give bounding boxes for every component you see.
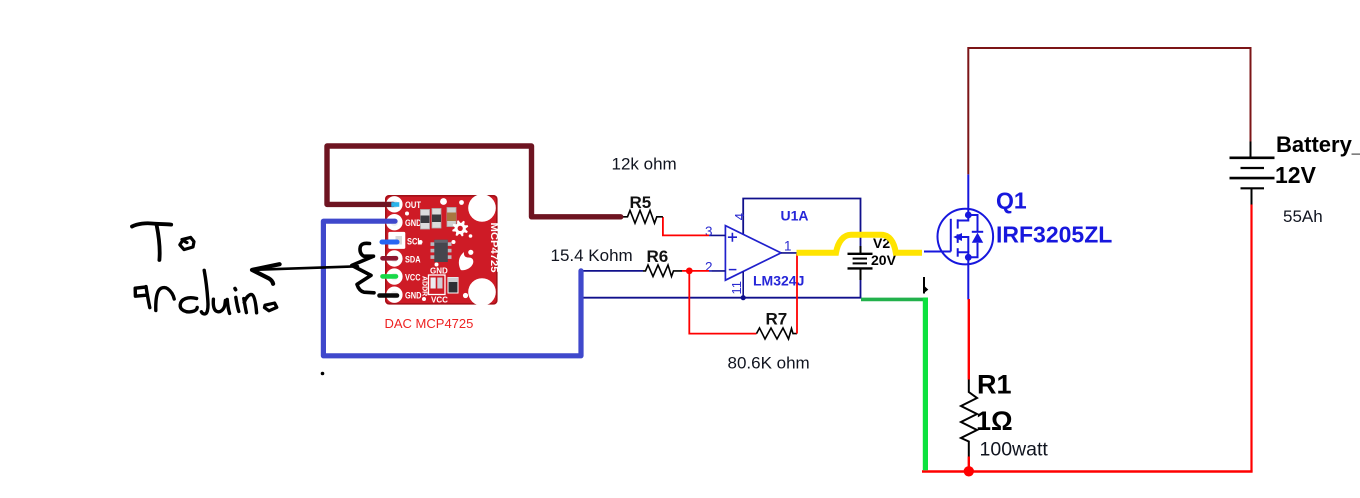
Q1 channel segment bottom (957, 248, 959, 257)
svg-text:SDA: SDA (405, 255, 421, 266)
wire top rail dark red (968, 48, 1250, 174)
board IC MCP4725 chip (431, 242, 436, 246)
svg-text:GND: GND (405, 218, 422, 229)
op-amp U1A triangle (725, 226, 781, 281)
Q1 drain inner connection (958, 209, 969, 221)
DAC board group (385, 194, 500, 306)
letter u (213, 299, 225, 312)
op-amp minus sign (729, 269, 737, 271)
svg-text:R6: R6 (647, 247, 669, 266)
Q1 gate bar (950, 219, 952, 252)
battery plate short (1241, 167, 1265, 169)
battery plate short bottom (1241, 187, 1265, 189)
svg-text:ADDR: ADDR (421, 276, 428, 296)
Q1 body diode connection bottom (968, 243, 977, 257)
op-amp pin2 stub (709, 270, 725, 272)
svg-text:1Ω: 1Ω (976, 406, 1013, 436)
wire blue MOSFET source lower (967, 264, 969, 299)
op-amp pin1 stub (781, 252, 798, 254)
board pad GND1 (386, 214, 402, 230)
battery Battery_ 12V top terminal (1250, 142, 1252, 159)
wire blue MOSFET drain upper (967, 174, 969, 209)
Q1 gate lead (924, 251, 951, 253)
Q1 drain junction dot (965, 212, 972, 219)
wire red right side down (1250, 205, 1252, 472)
wire navy R6 input (581, 270, 643, 272)
svg-text:R7: R7 (766, 310, 788, 329)
board mounting hole top (468, 194, 496, 222)
wire navy op-amp power top (743, 199, 860, 247)
op-amp pin11 stub (742, 272, 744, 298)
svg-text:80.6K ohm: 80.6K ohm (728, 354, 810, 373)
board PCB MCP4725 breakout (385, 195, 498, 305)
wire maroon cyan tip (391, 202, 399, 207)
Q1 source inner connection (958, 252, 969, 264)
resistor R1 zigzag (961, 380, 977, 457)
wire navy bottom horizontal (581, 297, 862, 299)
svg-text:Battery_: Battery_ (1276, 132, 1360, 157)
svg-text:MCP4725: MCP4725 (488, 223, 500, 273)
stray dot (321, 372, 325, 376)
op-amp pin3 stub (709, 234, 725, 236)
svg-text:R5: R5 (630, 193, 652, 212)
svg-text:U1A: U1A (781, 208, 809, 224)
board pad SCL square (388, 232, 405, 249)
board wire stub SDA dark red (383, 256, 397, 261)
letter r (156, 288, 174, 311)
board SMD resistor 1 (421, 210, 430, 230)
wire red feedback left (689, 271, 756, 334)
Q1 body diode cathode bar (972, 231, 983, 233)
svg-text:GND: GND (430, 267, 448, 276)
letter T (132, 223, 171, 226)
wire red MOSFET source to R1 (968, 299, 970, 380)
Q1 body connection (958, 237, 969, 252)
squiggle (352, 243, 374, 292)
wire yellow op-amp output to gate (797, 235, 923, 253)
wire red R6 to pin2 (682, 270, 709, 272)
cursor mark (923, 277, 925, 294)
board mounting hole bottom (468, 278, 496, 306)
V2 bottom terminal (860, 268, 862, 280)
svg-text:20V: 20V (871, 252, 897, 268)
battery bottom terminal (1251, 188, 1253, 204)
wire red R5 to pin3 (663, 217, 709, 235)
board jumper box (429, 275, 446, 295)
board SMD near jumper (448, 278, 458, 294)
svg-text:R1: R1 (977, 369, 1012, 399)
battery plate long (1230, 177, 1275, 180)
letter d (180, 298, 197, 312)
svg-text:11: 11 (729, 281, 744, 295)
letter n (244, 294, 257, 312)
Q1 channel segment top (957, 219, 959, 228)
board pad GND2 (386, 287, 402, 303)
wire red bottom rail (922, 470, 1253, 472)
svg-text:VCC: VCC (405, 273, 421, 284)
wire red feedback right (796, 254, 798, 334)
svg-text:GND: GND (405, 291, 422, 302)
letter o (264, 303, 276, 311)
letter o of To (180, 237, 194, 249)
svg-text:Q1: Q1 (996, 188, 1027, 214)
board gear icon (452, 220, 468, 236)
board pad OUT (386, 196, 402, 212)
board wire stub SCL blue (382, 240, 397, 245)
Q1 body diode connection top (968, 215, 977, 232)
board SMD resistor 2 (432, 209, 441, 229)
V2 plate short2 (853, 262, 867, 264)
Q1 body arrow head (953, 233, 962, 241)
voltage source V2 top terminal (860, 246, 862, 254)
wire red R1 bottom (968, 457, 970, 469)
V2 plate short (853, 258, 867, 260)
arrow head (252, 264, 280, 284)
board wire stub VCC green (383, 274, 397, 279)
V2 plate long top (848, 253, 873, 255)
junction dot red pin2 (686, 268, 693, 275)
svg-text:12V: 12V (1275, 162, 1317, 188)
svg-text:OUT: OUT (405, 200, 421, 211)
board flame logo (459, 252, 473, 270)
board wire stub GND black (380, 293, 398, 298)
letter a (135, 287, 146, 296)
board SMD capacitor (447, 208, 456, 227)
wire navy V2 bottom (860, 280, 862, 298)
svg-text:15.4 Kohm: 15.4 Kohm (551, 246, 633, 265)
svg-text:4: 4 (732, 213, 747, 220)
handwriting To arduino (132, 223, 374, 314)
arrow shaft (254, 266, 358, 270)
svg-text:100watt: 100watt (980, 439, 1049, 461)
svg-text:1: 1 (784, 239, 792, 254)
wire green horizontal (861, 298, 928, 302)
svg-text:VCC: VCC (431, 296, 448, 305)
op-amp plus sign (728, 233, 737, 242)
junction dot pin11 (741, 295, 746, 300)
transistor Q1 MOSFET circle (924, 209, 993, 265)
Q1 source junction dot (965, 254, 972, 261)
letter i (233, 289, 237, 290)
resistor R6 (643, 265, 682, 277)
svg-text:IRF3205ZL: IRF3205ZL (996, 222, 1112, 248)
junction dot red bottom (964, 466, 974, 476)
Q1 body diode triangle (972, 233, 983, 243)
svg-text:2: 2 (705, 260, 713, 275)
wire green vertical (923, 298, 928, 471)
svg-text:12k ohm: 12k ohm (612, 155, 677, 174)
resistor R5 (621, 210, 663, 223)
board pad SDA (386, 250, 402, 266)
wire thick blue GND wire (323, 221, 581, 356)
wire thick maroon OUT wire (327, 146, 621, 217)
V2 plate long bottom (848, 267, 873, 269)
svg-text:DAC MCP4725: DAC MCP4725 (385, 316, 474, 331)
svg-text:3: 3 (705, 224, 713, 239)
battery plate long top (1230, 157, 1275, 160)
resistor R7 (757, 328, 798, 339)
board pad VCC (386, 268, 402, 284)
board vias (440, 198, 447, 205)
svg-text:55Ah: 55Ah (1283, 207, 1323, 226)
Q1 channel segment middle (957, 234, 959, 243)
